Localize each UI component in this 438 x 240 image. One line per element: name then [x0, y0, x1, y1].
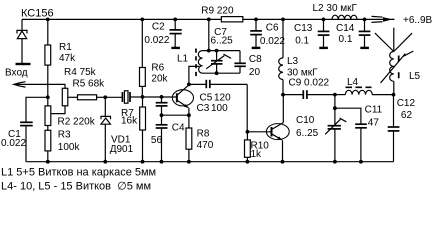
node rail-R1	[46, 18, 50, 22]
node L4-L5-C12	[392, 93, 396, 97]
zener diode VD1	[101, 97, 134, 161]
svg-text:0.1: 0.1	[295, 36, 309, 47]
capacitor C11	[335, 105, 383, 162]
resistor R5	[68, 79, 106, 100]
svg-text:56: 56	[151, 135, 163, 146]
svg-text:R2 220k: R2 220k	[58, 117, 96, 128]
svg-text:L4: L4	[347, 77, 359, 88]
wire tank feed	[208, 19, 210, 50]
node rail-C2	[173, 18, 177, 22]
svg-text:L5: L5	[409, 71, 421, 82]
ground	[16, 63, 31, 65]
node rail-C11	[359, 160, 363, 164]
wire VT2 base	[247, 131, 270, 133]
wire base line right	[143, 96, 177, 98]
node rail-VD1	[103, 160, 107, 164]
svg-text:R4 75k: R4 75k	[64, 67, 97, 78]
svg-text:6..25: 6..25	[211, 36, 234, 47]
svg-text:L1: L1	[177, 54, 189, 65]
node rail-C6	[254, 18, 258, 22]
svg-text:20k: 20k	[151, 74, 168, 85]
svg-text:C2: C2	[152, 22, 165, 33]
resistor R4	[51, 67, 96, 114]
crystal ZQ1	[122, 91, 142, 103]
wire C1 to bias node	[26, 97, 48, 122]
node pi input	[333, 93, 337, 97]
wire top supply rail	[22, 18, 394, 20]
node rail-C13	[322, 18, 326, 22]
input arrow	[12, 82, 26, 87]
wire C5 to VT2 base	[246, 84, 248, 131]
svg-text:100: 100	[211, 103, 228, 114]
wire collector to L1 tap	[189, 66, 199, 84]
inductor L2	[313, 3, 358, 19]
resistor R1	[45, 19, 76, 97]
inductor L1	[177, 49, 203, 78]
node rail-VT2e	[281, 160, 285, 164]
zener diode VD КС156	[17, 19, 27, 63]
capacitor C5	[189, 80, 247, 104]
wire VT2 collector	[282, 95, 284, 123]
inductor L4	[335, 77, 394, 95]
capacitor C13	[294, 19, 329, 47]
node rail-R7	[141, 160, 145, 164]
wire tank bottom	[203, 72, 241, 74]
wire C3C4 tap	[162, 114, 189, 116]
resistor R6	[140, 19, 169, 97]
svg-text:L2 30 мкГ: L2 30 мкГ	[313, 3, 358, 14]
trimmer capacitor C7	[206, 27, 233, 73]
svg-text:62: 62	[401, 110, 413, 121]
svg-text:КС156: КС156	[21, 7, 54, 19]
node C10-C11	[333, 106, 337, 110]
svg-text:C4: C4	[172, 123, 185, 134]
label Вход	[5, 68, 28, 79]
wire VT2 emitter	[282, 140, 284, 161]
node rail-R10	[246, 160, 250, 164]
resistor R9	[201, 6, 242, 22]
svg-text:6..25: 6..25	[296, 128, 319, 139]
svg-text:C14: C14	[336, 23, 355, 34]
svg-text:C13: C13	[294, 23, 313, 34]
svg-text:470: 470	[197, 140, 214, 151]
svg-text:100k: 100k	[58, 142, 81, 153]
label +6..9В	[403, 15, 433, 26]
svg-text:Вход: Вход	[5, 68, 28, 79]
node rail-C10	[333, 160, 337, 164]
svg-text:120: 120	[214, 93, 231, 104]
inductor L3	[279, 19, 318, 94]
resistor R2	[45, 97, 96, 127]
capacitor C4	[151, 115, 185, 162]
svg-text:L4- 10, L5 - 15 Витков ∅5 мм: L4- 10, L5 - 15 Витков ∅5 мм	[1, 181, 151, 193]
svg-text:+6..9В: +6..9В	[403, 15, 433, 26]
node tank bottom C7	[215, 71, 219, 75]
svg-text:C6: C6	[266, 23, 279, 34]
svg-text:20: 20	[249, 67, 261, 78]
svg-text:C8: C8	[249, 54, 262, 65]
note line 2	[1, 181, 151, 193]
ground C13	[319, 47, 328, 49]
svg-text:0.1: 0.1	[339, 34, 353, 45]
svg-text:R9 220: R9 220	[201, 6, 234, 17]
resistor R8	[186, 115, 214, 162]
svg-text:L1 5+5 Витков на каркасе 5мм: L1 5+5 Витков на каркасе 5мм	[1, 167, 156, 179]
capacitor C6	[250, 19, 285, 47]
ground C6	[252, 47, 261, 49]
ground C14	[360, 47, 369, 49]
transistor VT2	[266, 123, 289, 141]
variable inductor L5	[381, 51, 421, 95]
node VT2 base	[246, 130, 250, 134]
node base-C3	[160, 95, 164, 99]
node VT1 collector	[187, 83, 191, 87]
svg-text:1k: 1k	[251, 149, 263, 160]
node crystal-R6-R7	[141, 95, 145, 99]
node C3-C4	[160, 113, 164, 117]
svg-text:47k: 47k	[59, 53, 76, 64]
svg-text:16k: 16k	[121, 116, 138, 127]
svg-text:R6: R6	[151, 63, 164, 74]
note line 1	[1, 167, 156, 179]
resistor R7	[121, 97, 146, 162]
supply arrow	[372, 16, 395, 22]
node tank top C7	[215, 49, 219, 53]
label КС156	[21, 7, 54, 19]
svg-text:Д901: Д901	[110, 144, 134, 155]
capacitor C3	[156, 97, 228, 115]
node rail-C14	[363, 18, 367, 22]
node rail-R3	[46, 160, 50, 164]
svg-text:R1: R1	[59, 42, 72, 53]
svg-text:0.022: 0.022	[144, 35, 169, 46]
node R5-VD1	[103, 95, 107, 99]
node tank top feed	[207, 49, 211, 53]
wire tank top	[203, 50, 241, 52]
svg-text:C11: C11	[365, 105, 383, 116]
transistor VT1	[172, 85, 193, 108]
svg-text:C5: C5	[200, 93, 213, 104]
node rail-R8	[187, 160, 191, 164]
wire bottom ground rail	[26, 161, 394, 163]
capacitor C2	[144, 19, 181, 47]
node rail-R6	[140, 18, 144, 22]
resistor R10	[245, 132, 270, 162]
node rail-L3	[281, 18, 285, 22]
capacitor C14	[336, 19, 370, 47]
node rail-C4	[160, 160, 164, 164]
capacitor C12	[388, 95, 416, 162]
resistor R3	[45, 126, 80, 162]
svg-text:C12: C12	[397, 98, 416, 109]
node VT2 collector	[281, 93, 285, 97]
wire base line left	[105, 96, 122, 98]
svg-text:0.022: 0.022	[260, 36, 285, 47]
node rail-tank feed	[207, 18, 211, 22]
wire input	[17, 84, 65, 88]
ground C2	[171, 47, 180, 49]
svg-text:47: 47	[368, 118, 380, 129]
svg-text:C9 0.022: C9 0.022	[289, 77, 330, 88]
svg-text:R8: R8	[197, 129, 210, 140]
svg-text:R5 68k: R5 68k	[73, 79, 106, 90]
node emitter tap	[187, 113, 191, 117]
svg-text:0.022: 0.022	[1, 138, 26, 149]
variable capacitor C10	[296, 115, 346, 162]
node bias	[46, 95, 50, 99]
capacitor C1	[1, 122, 33, 161]
wire VT1 emitter	[188, 108, 190, 115]
svg-text:L3: L3	[287, 56, 299, 67]
antenna	[375, 28, 412, 52]
capacitor C9	[283, 77, 335, 99]
svg-text:C10: C10	[296, 115, 315, 126]
svg-text:R3: R3	[58, 130, 71, 141]
svg-text:C3: C3	[197, 103, 210, 114]
wire pi drop	[334, 95, 336, 126]
capacitor C8	[234, 51, 262, 78]
